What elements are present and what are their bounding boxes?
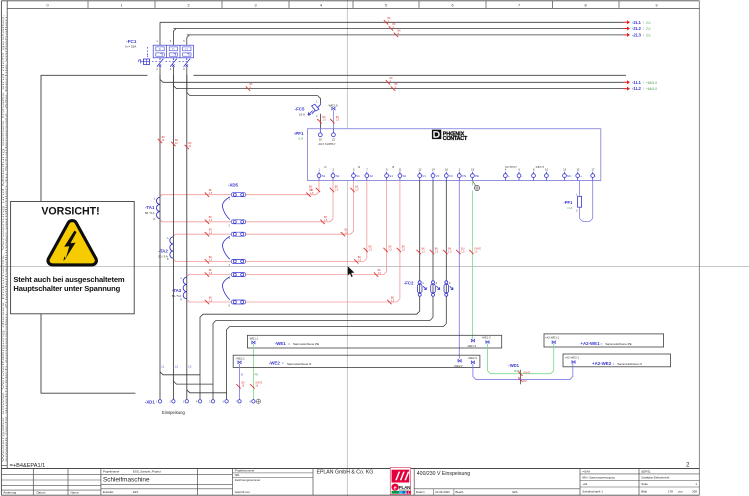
svg-text:3: 3 <box>254 3 256 7</box>
svg-text:02.06.2022: 02.06.2022 <box>435 490 450 494</box>
svg-text:6: 6 <box>451 3 453 7</box>
svg-text:AUX SUPPLY: AUX SUPPLY <box>318 142 335 146</box>
svg-text:Bearb.: Bearb. <box>456 490 465 494</box>
svg-text:I1: I1 <box>324 165 327 169</box>
svg-text:/1.4: /1.4 <box>567 206 572 210</box>
svg-text:Datum: Datum <box>416 490 425 494</box>
svg-text:I>: I> <box>186 47 189 51</box>
svg-text:Steht auch bei ausgeschaltetem: Steht auch bei ausgeschaltetem <box>13 275 125 284</box>
svg-text:1: 1 <box>120 3 122 7</box>
svg-text:17: 17 <box>591 167 595 171</box>
svg-text:-WE2:9: -WE2:9 <box>328 103 338 107</box>
svg-text:11: 11 <box>399 167 402 171</box>
svg-text:+A2-WE1:1: +A2-WE1:1 <box>545 336 560 340</box>
svg-text:S1: S1 <box>356 174 360 178</box>
svg-text:0: 0 <box>46 3 48 7</box>
svg-text:PLAN: PLAN <box>399 485 412 490</box>
svg-text:-1L2: -1L2 <box>632 86 641 91</box>
svg-text:=: = <box>612 362 614 366</box>
svg-text:Sammelschiene PE: Sammelschiene PE <box>605 342 631 346</box>
svg-text:+A2-WE2: +A2-WE2 <box>592 361 612 366</box>
svg-text:I>: I> <box>172 47 175 51</box>
svg-text:13: 13 <box>563 167 567 171</box>
svg-text:Schleifmaschine: Schleifmaschine <box>103 477 150 484</box>
svg-text:Ersteller: Ersteller <box>103 490 114 494</box>
svg-text:Schaltplan Elektrotechnik: Schaltplan Elektrotechnik <box>641 476 670 479</box>
svg-text:-: - <box>595 174 596 178</box>
svg-text:PE: PE <box>475 174 479 178</box>
svg-text:178: 178 <box>668 490 673 494</box>
svg-text:-WE1:1: -WE1:1 <box>249 337 259 341</box>
svg-text:VN: VN <box>462 174 466 178</box>
svg-text:CONTACT: CONTACT <box>443 136 468 142</box>
svg-text:-2L1: -2L1 <box>632 20 641 25</box>
svg-text:Blatt: Blatt <box>641 490 647 494</box>
svg-text:18: 18 <box>471 167 475 171</box>
svg-text:V3: V3 <box>449 174 453 178</box>
svg-text:S2: S2 <box>336 174 340 178</box>
svg-text:=+B4&EPA1/1: =+B4&EPA1/1 <box>10 463 46 469</box>
svg-text:ESS_Sample_Project: ESS_Sample_Project <box>133 469 161 473</box>
svg-text:+: + <box>508 174 510 178</box>
svg-text:V2: V2 <box>436 174 440 178</box>
svg-text:305: 305 <box>692 490 697 494</box>
svg-text:/: / <box>643 87 644 91</box>
svg-text:EPL: EPL <box>133 490 139 494</box>
svg-text:+A2-WE1: +A2-WE1 <box>580 341 600 346</box>
svg-text:/: / <box>643 27 644 31</box>
svg-text:Schaltschrank 1: Schaltschrank 1 <box>582 490 603 494</box>
svg-text:S1: S1 <box>389 174 393 178</box>
svg-text:-XD5: -XD5 <box>228 182 239 187</box>
svg-text:OUTPUT: OUTPUT <box>505 165 517 169</box>
svg-text:&EPS1: &EPS1 <box>641 469 651 473</box>
svg-text:EPL: EPL <box>513 490 519 494</box>
svg-text:/: / <box>643 21 644 25</box>
svg-text:/1.8: /1.8 <box>298 137 303 141</box>
svg-text:7: 7 <box>518 3 520 7</box>
svg-text:-PF1: -PF1 <box>294 131 304 136</box>
svg-text:9: 9 <box>655 3 657 7</box>
svg-text:V1: V1 <box>422 174 426 178</box>
svg-text:-FC1: -FC1 <box>126 39 137 44</box>
svg-text:Datum: Datum <box>37 490 46 494</box>
svg-text:S2: S2 <box>403 174 407 178</box>
svg-text:14: 14 <box>432 167 436 171</box>
svg-text:5: 5 <box>385 3 387 7</box>
svg-text:16 A: 16 A <box>299 112 305 116</box>
svg-text:2.0: 2.0 <box>646 21 651 25</box>
svg-text:-PF1: -PF1 <box>563 200 573 205</box>
svg-text:PE: PE <box>255 372 259 376</box>
svg-text:=: = <box>600 342 602 346</box>
svg-text:Projektname: Projektname <box>103 469 120 473</box>
svg-text:-: - <box>522 174 523 178</box>
svg-text:-XD1: -XD1 <box>145 399 156 404</box>
svg-text:von: von <box>678 490 683 494</box>
svg-text:INPUT: INPUT <box>536 165 545 169</box>
svg-text:-2L3: -2L3 <box>632 33 641 38</box>
svg-text:8: 8 <box>584 3 586 7</box>
svg-text:2: 2 <box>187 3 189 7</box>
svg-text:Sammelschiene N: Sammelschiene N <box>287 362 311 366</box>
svg-text:15: 15 <box>576 167 580 171</box>
svg-text:Änderung: Änderung <box>3 490 16 494</box>
svg-text:+6A/1.0: +6A/1.0 <box>646 87 657 91</box>
svg-text:Einspeisung: Einspeisung <box>162 410 185 415</box>
svg-text:I3: I3 <box>392 165 395 169</box>
svg-text:+A2-WE2:1: +A2-WE2:1 <box>565 356 580 360</box>
svg-text:Name: Name <box>71 490 79 494</box>
svg-text:Hauptschalter unter Spannung: Hauptschalter unter Spannung <box>13 284 120 293</box>
svg-text:In = 32A: In = 32A <box>125 45 136 49</box>
svg-text:GNYE: GNYE <box>523 371 530 374</box>
svg-text:N: N <box>241 372 243 376</box>
svg-text:50 / 5 A: 50 / 5 A <box>145 211 155 215</box>
svg-text:K: K <box>154 217 156 221</box>
svg-text:I2: I2 <box>358 165 361 169</box>
svg-text:=GAA: =GAA <box>582 469 590 473</box>
svg-text:2.0: 2.0 <box>646 27 651 31</box>
svg-text:+6A/1.0: +6A/1.0 <box>646 81 657 85</box>
svg-text:-2L2: -2L2 <box>632 26 641 31</box>
svg-text:Zeichnungsnummer: Zeichnungsnummer <box>235 478 261 482</box>
svg-text:-WE1: -WE1 <box>275 341 287 346</box>
svg-text:-1L1: -1L1 <box>632 80 641 85</box>
svg-text:-WE2:2: -WE2:2 <box>453 364 463 368</box>
svg-text:2.0: 2.0 <box>646 33 651 37</box>
svg-text:S1: S1 <box>322 174 326 178</box>
svg-text:VORSICHT!: VORSICHT! <box>41 206 99 218</box>
svg-text:Weitergabe sowie Vervielfältig: Weitergabe sowie Vervielfältigung dieses… <box>2 13 5 462</box>
svg-text:-FC2: -FC2 <box>404 280 414 285</box>
svg-text:-WE1:3: -WE1:3 <box>481 335 491 339</box>
svg-text:4: 4 <box>320 3 322 7</box>
svg-text:=: = <box>288 342 290 346</box>
svg-text:K: K <box>180 297 182 301</box>
svg-text:BU: BU <box>523 380 527 383</box>
svg-text:-WE2:3: -WE2:3 <box>468 356 478 360</box>
svg-text:S2: S2 <box>369 174 373 178</box>
svg-text:-WE2:1: -WE2:1 <box>235 356 245 360</box>
svg-text:-TA1: -TA1 <box>145 205 155 210</box>
svg-text:e: e <box>394 485 397 491</box>
svg-text:10: 10 <box>545 167 549 171</box>
svg-text:Projektnummer: Projektnummer <box>235 469 255 473</box>
svg-text:12: 12 <box>418 167 422 171</box>
svg-text:-FC5: -FC5 <box>295 106 305 111</box>
svg-text:Sammelschiene N: Sammelschiene N <box>617 362 641 366</box>
svg-text:001: 001 <box>235 473 240 477</box>
svg-text:=: = <box>282 362 284 366</box>
svg-text:-WE2: -WE2 <box>269 361 281 366</box>
svg-text:+: + <box>580 174 582 178</box>
svg-text:-WD1: -WD1 <box>508 363 519 368</box>
svg-text:+A1: +A1 <box>582 482 588 486</box>
svg-text:MM + Spannungsversorgung: MM + Spannungsversorgung <box>582 476 615 479</box>
svg-text:Sammelschiene PE: Sammelschiene PE <box>293 342 319 346</box>
svg-text:Seite: Seite <box>641 482 648 486</box>
svg-text:K: K <box>167 257 169 261</box>
svg-text:400/230 V Einspeisung: 400/230 V Einspeisung <box>417 471 470 477</box>
svg-text:I>: I> <box>159 47 162 51</box>
svg-text:Geprüft von: Geprüft von <box>235 490 250 494</box>
svg-text:16: 16 <box>445 167 449 171</box>
svg-text:EPLAN GmbH & Co. KG: EPLAN GmbH & Co. KG <box>317 470 374 476</box>
svg-text:soweit nicht ausdrücklich zuge: soweit nicht ausdrücklich zugestanden. Z… <box>5 13 8 462</box>
svg-text:/: / <box>643 33 644 37</box>
svg-text:-WE1:2: -WE1:2 <box>467 344 477 348</box>
svg-text:/: / <box>643 81 644 85</box>
